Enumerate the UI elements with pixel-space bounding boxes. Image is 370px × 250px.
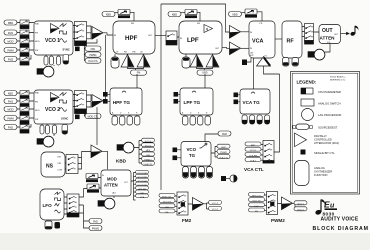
wire bracket [204,203,209,209]
analog switch bank (VCO1 waveforms) [75,22,87,46]
block LPF TG [180,88,213,115]
oval KBD (HPF fm) [102,12,115,17]
svg-text:SOURCE/DEST.: SOURCE/DEST. [318,126,338,130]
wire HPF out to switch [155,35,179,37]
pin connector pills below VCO1 [44,56,61,65]
oval MOD dest 1 [136,170,149,175]
svg-text:FM2: FM2 [8,58,14,62]
wire VCO2 waves to switch [73,95,76,107]
wire [17,49,34,51]
oval MOD dest 4 [136,182,149,187]
dca triangle up (HPF a) [121,55,134,68]
block HPF [113,21,155,54]
oval input MOD (VCO1) [4,39,17,44]
wire [17,55,31,59]
dca triangle (NS out) [91,145,102,158]
svg-text:PWM1: PWM1 [89,54,97,57]
svg-text:KBD: KBD [232,13,237,17]
tg pills below HPF TG [112,116,140,125]
oval KBD (VCA ctl) [229,12,242,17]
svg-text:LFO: LFO [254,206,258,208]
dca triangle (into VCA 1) [230,26,241,39]
block LFO [40,189,64,220]
lag knob below VCO1 [37,66,54,77]
svg-text:FM: FM [35,102,38,104]
svg-text:HPF: HPF [125,35,138,42]
oval MOD dest 3 [136,178,149,183]
pin pill below LFO (white) [45,221,52,229]
svg-text:KBD: KBD [116,159,127,164]
lag knob below VCO2 [37,136,54,147]
oval input FM1 (VCO1) [4,30,17,35]
legend box [291,72,360,195]
oval input FM2 (VCO2) [4,125,17,130]
logo E-mu [315,199,337,215]
svg-text:VCO1: VCO1 [250,150,257,152]
block NS [41,152,65,177]
pin pill below LFO (black) [55,222,61,229]
oval input FM1 (VCO2) [4,99,17,104]
svg-text:LAG PROCESSOR: LAG PROCESSOR [318,113,341,117]
single-bit ctl (VCO TG b) [173,156,178,161]
oval VCA CTL in 2 [245,147,261,152]
svg-text:Q: Q [206,27,208,31]
svg-text:LEGEND:: LEGEND: [297,80,317,85]
wire VCO1 waves to switch [73,26,76,39]
wire [17,100,34,102]
svg-text:VCA 1: VCA 1 [250,160,257,163]
legend note [330,76,346,82]
wire [115,54,144,70]
single-bit ctl (HPF TG a) [103,92,108,97]
svg-text:INVERTED CTL.: INVERTED CTL. [330,80,346,82]
dca triangle up (VCA ctl) [257,57,271,67]
oval FM2 in 4 [159,209,175,214]
svg-text:MOD: MOD [7,108,13,112]
svg-text:VCA CTL: VCA CTL [244,167,264,172]
svg-text:PW: PW [35,119,38,121]
svg-text:FM1: FM1 [91,48,96,51]
oval MOD dest 6 [136,190,149,195]
svg-text:VCO 2: VCO 2 [212,209,219,211]
svg-text:FM2: FM2 [93,221,98,224]
svg-text:FM1: FM1 [8,100,14,104]
svg-text:DIGITALLY: DIGITALLY [314,134,327,138]
oval input PWM (VCO1) [4,48,17,53]
svg-text:MOD CTL: MOD CTL [252,195,262,197]
legend icon dca [295,133,307,147]
wire bus down from VCO1 area [84,39,97,60]
single-bit ctl (HPF TG b) [103,99,108,104]
oval KBD dest PWM2 [142,157,155,162]
svg-text:LAG: LAG [112,192,116,195]
oval FM1 dest (VCO1) [85,46,101,51]
wire bracket KBD dests [134,141,142,164]
svg-text:FM2: FM2 [222,133,227,136]
oval input PWM (VCO2) [4,116,17,121]
wire [17,40,34,42]
wire long bus left [84,107,97,145]
oval FM2 out VCO2 [209,206,222,211]
svg-text:SYNTHESIZER: SYNTHESIZER [314,170,332,174]
svg-text:KBD: KBD [35,93,40,95]
svg-text:TG: TG [189,153,196,158]
single-bit ctl (LPF TG b) [174,99,179,104]
block VCA TG [240,89,270,114]
svg-text:VCO 1: VCO 1 [45,38,60,44]
svg-text:LFO: LFO [43,203,53,208]
legend icon source dest [293,124,313,129]
dca triangle up (HPF b) [137,55,150,68]
wire [226,26,250,32]
oval VCA CTL in 1 [245,142,261,147]
dca triangle (FM2) [193,198,204,211]
block HPF TG [110,88,142,115]
oval input KBD (VCO2) [4,91,17,96]
svg-text:NS: NS [46,164,54,170]
block RF [282,21,302,58]
pin connector pills below VCO2 [40,125,57,134]
oval PWM dest (VCO1) [85,52,101,57]
svg-text:LPF: LPF [187,37,199,44]
pin pill below RF (b) [292,58,298,67]
attenuator DCA (VCO2 FM2) [20,125,29,134]
oval KBD dest HPF [142,147,155,152]
block VCO2 [34,90,73,124]
lag knob KBD [117,142,134,153]
svg-text:VCO 1: VCO 1 [212,203,219,205]
block VCO TG [181,142,211,167]
analog switch (HPF bypass) [166,31,177,45]
oval VCA CTL in 3 [245,152,261,157]
wire VCA out to RF [275,38,282,40]
svg-text:ANALOG: ANALOG [314,166,325,170]
oval VCO TG dest PWM2 [217,149,230,154]
legend text dca [314,134,339,145]
oval KBD dest VCO2 [142,143,155,148]
analog switch bank (LFO) [67,194,79,217]
tg pills below VCA TG [242,115,270,124]
svg-text:PWM2: PWM2 [220,152,227,154]
pin pill below RF (a) [283,58,289,67]
lag knob below MOD ATTEN [98,198,115,209]
svg-text:LPF TG: LPF TG [184,100,201,105]
wire [241,47,250,49]
single-bit ctl SYNC (VCO1) [75,47,80,52]
analog switch bank (VCO2 waveforms) [75,91,87,114]
wire [17,124,31,127]
svg-text:ATTENUATOR (DCA): ATTENUATOR (DCA) [314,141,339,145]
oval VCO TG dest FM2 [217,144,230,149]
single-bit marker [221,176,226,181]
svg-text:FM2: FM2 [8,126,14,130]
svg-text:PW: PW [35,50,38,52]
single-bit ctl (VCA TG b) [234,100,239,105]
wire knob to atten [325,44,330,53]
svg-text:VCO 1: VCO 1 [297,204,304,206]
svg-text:MOD: MOD [35,41,40,43]
oval VCO TG top [218,131,231,136]
legend icon analog function [295,161,310,186]
wire [261,74,280,160]
wire NS dca out [102,151,108,169]
svg-text:VCO 2: VCO 2 [45,107,60,113]
svg-text:VCA: VCA [252,39,263,45]
svg-text:KBD: KBD [35,24,40,26]
wire bracket MOD dests [131,173,136,201]
oval KBD (LPF fm) [168,12,181,17]
dca buffer triangle (VCO1 out) [92,27,103,40]
svg-text:VCA: VCA [140,196,145,199]
wire [84,221,90,228]
single-bit ctl (LPF TG a) [174,92,179,97]
svg-text:FUNCTION: FUNCTION [314,173,328,177]
wire NS to switch [65,157,66,169]
svg-text:MOD: MOD [7,40,13,44]
wire LPF out to dca [222,47,230,48]
wire [115,12,134,21]
attenuator DCA (VCO1 MOD) [20,39,29,48]
svg-text:MOD CTL: MOD CTL [88,116,99,119]
wire [53,65,55,66]
analog switch bank (PWM2) [267,192,278,215]
wire [177,150,181,158]
music note [350,26,358,37]
legend icon analog switch [301,99,314,106]
svg-text:HPF TG: HPF TG [113,100,131,105]
svg-text:LOW: LOW [58,170,63,172]
attenuator DCA (VCO2 PWM) [20,116,29,125]
svg-text:FM: FM [131,23,134,25]
wire bracket right ovals [211,147,217,158]
oval FM2 in 2 [159,199,175,204]
oval VCA CTL dest (VCO1) [85,58,101,63]
wire [186,165,210,168]
lag circle marker [226,175,237,182]
single-bit ctl (VCA TG a) [234,93,239,98]
wire RF to switch [302,27,319,37]
dca triangle up (LPF a) [190,55,203,68]
svg-text:PWM: PWM [7,49,13,53]
wire [186,54,213,70]
svg-text:OUT: OUT [322,28,333,34]
wire [254,58,280,89]
wire [175,196,193,212]
wire [17,92,34,94]
svg-text:KBD: KBD [172,13,177,17]
wire [265,195,282,211]
wire switch to dca triangle [78,152,91,170]
wire [17,108,34,110]
block MOD ATTEN [101,170,131,196]
single-bit ctl (VCA exp) [242,60,247,66]
lag pill below LPF [182,57,190,68]
block OUT ATTEN [319,25,341,44]
oval FM2 out VCO1 [209,200,222,205]
block VCO1 [34,21,73,55]
svg-text:AUDITY VOICE: AUDITY VOICE [321,216,359,222]
tg pills below LPF TG [183,116,211,125]
single-bit ctl (VCO TG a) [173,148,178,153]
svg-text:SOLID BLACK =: SOLID BLACK = [330,76,346,79]
wire [247,58,251,62]
svg-text:ATTEN: ATTEN [320,36,336,41]
svg-text:KBD: KBD [8,21,13,25]
svg-text:MOD CTL: MOD CTL [162,196,172,198]
dca triangle (PWM2) [282,197,293,210]
wire [238,95,240,102]
attenuator DCA (VCO2 FM1) [20,99,29,108]
wire LFO to switch [64,197,67,214]
svg-text:KBD: KBD [8,92,13,96]
wire [17,22,34,24]
wire switch to buffer [87,26,92,39]
wire [136,74,138,88]
svg-text:SYNC: SYNC [63,48,70,52]
oval KBD (LPF tg link) [197,70,213,75]
wire to top oval [205,134,218,142]
wire [242,12,263,21]
svg-text:PWM2: PWM2 [92,228,100,231]
attenuator DCA (LFO up) [86,174,98,183]
svg-text:PWM: PWM [7,117,13,121]
wire [84,178,102,189]
oval MOD CTL dest (VCO2) [85,114,101,119]
oval input FM2 (VCO1) [4,57,17,62]
svg-text:SINGLE BIT CTL.: SINGLE BIT CTL. [314,151,336,155]
wire [178,94,180,101]
oval VCO TG dest VCA CTL [217,155,230,160]
attenuator DCA (LPF fm) [185,10,197,19]
wire VCO1 out to HPF in [103,33,113,35]
oval FM2 (LFO dest) [89,219,102,224]
wire [17,117,34,119]
lag pill below HPF [111,57,119,68]
oval input MOD (VCO2) [4,107,17,112]
wire [108,94,110,101]
svg-text:MOD: MOD [107,177,117,182]
dca buffer triangle (VCO2 out) [92,95,103,108]
wire [17,32,34,34]
svg-text:VCO 2: VCO 2 [297,210,304,212]
legend icon cpu parameter [301,88,313,94]
oval KBD dest LPF [142,152,155,157]
oval FM (HPF tg link) [131,70,147,75]
oval PWM2 in 3 [249,203,265,208]
oval FM2 in 3 [159,204,175,209]
svg-text:PIN: PIN [58,163,62,165]
legend icon lag processor [302,109,314,121]
wire switch to buffer [87,95,92,107]
svg-text:VCO: VCO [187,147,197,152]
svg-text:VCA CTL: VCA CTL [143,163,153,166]
attenuator DCA (VCO1 KBD) [20,20,29,29]
svg-text:LFO: LFO [165,207,169,209]
wire long vertical x161 [160,4,162,190]
svg-text:MOD: MOD [35,110,40,112]
oval KBD dest VCA CTL [142,161,155,166]
tg pills below VCO TG (tall) [183,167,213,179]
svg-text:PWM2: PWM2 [271,218,285,223]
attenuator DCA (VCA ctl) [245,9,257,18]
attenuator DCA (VCO1 PWM) [20,48,29,57]
svg-text:ATTEN: ATTEN [104,183,118,188]
oval input KBD (VCO1) [4,20,17,25]
block VCA [249,21,275,58]
analog switch bank (NS) [66,155,78,174]
svg-text:CPU PARAMETER: CPU PARAMETER [318,90,341,94]
single-bit ctl SYNC (VCO2) [75,115,80,120]
svg-text:FM2: FM2 [182,218,192,223]
oval MOD dest 7 [136,194,149,199]
block LPF [179,21,222,54]
oval PWM2 out VCO2 [294,207,307,212]
analog switch bank (output) [305,24,314,45]
analog switch bank (VCA CTL) [263,141,274,164]
attenuator DCA (VCO2 MOD) [20,107,29,116]
svg-text:VCA TG: VCA TG [243,100,261,105]
single-bit pill (black) below VCO1 [63,55,69,65]
oval KBD dest VCO1 [142,138,155,143]
wire top routing loop [161,4,226,26]
wire VCO2 out up to HPF in node [103,35,106,101]
svg-text:FM: FM [197,23,200,25]
attenuator DCA (HPF fm) [118,10,130,19]
svg-text:BLOCK DIAGRAM: BLOCK DIAGRAM [313,226,369,232]
wire [113,196,115,198]
svg-text:VCO TG: VCO TG [163,202,171,204]
single-bit pill (black) below VCO2 [62,125,68,135]
svg-text:VCA FM: VCA FM [249,154,257,157]
legend icon single bit [301,150,306,155]
wire out arrow [334,32,349,36]
svg-text:RF: RF [287,39,295,45]
svg-text:VCA CTL: VCA CTL [88,60,99,63]
wire [204,74,206,88]
wire LFO switch out [79,189,84,222]
attenuator DCA (VCO1 FM2) [20,57,29,66]
analog switch bank (FM2) [177,192,188,215]
oval PWM2 in 2 [249,198,265,203]
svg-text:VCO TG: VCO TG [253,201,261,203]
attenuator DCA (VCO1 FM1) [20,30,29,39]
lag knob (volume) [308,49,325,60]
wire [53,134,55,136]
attenuator DCA (VCO2 KBD) [20,91,29,100]
attenuator DCA (LFO mid) [87,184,99,193]
wire [181,12,200,21]
oval MOD dest 5 [136,186,149,191]
svg-text:ANALOG SWITCH: ANALOG SWITCH [318,102,341,106]
svg-text:FM1: FM1 [8,31,14,35]
svg-text:SYNC: SYNC [61,117,68,121]
oval PWM2 (LFO dest) [89,226,102,231]
dca triangle (into VCA 2) [230,42,241,55]
svg-text:FM: FM [35,33,38,35]
oval PWM2 in 1 [249,192,265,197]
svg-text:CONTROLLED: CONTROLLED [314,138,332,142]
oval MOD dest 2 [136,174,149,179]
oval PWM2 in 4 [249,208,265,213]
legend text analog function [314,166,332,177]
wire bracket [293,203,297,209]
dca triangle up (LPF b) [206,55,219,68]
oval PWM2 out VCO1 [294,201,307,206]
svg-text:VCA CTL: VCA CTL [219,156,229,159]
oval VCA CTL in 4 [245,158,261,163]
svg-text:KBD: KBD [106,13,111,17]
oval FM2 in 1 [159,193,175,198]
